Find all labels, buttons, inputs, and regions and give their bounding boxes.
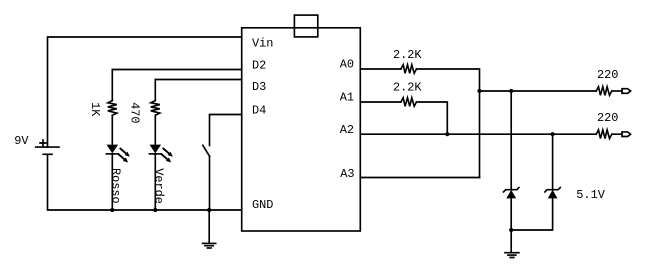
svg-text:Vin: Vin [252, 37, 273, 51]
junction dot zener ground node [509, 228, 513, 232]
LED D6 Verde triangle [150, 145, 162, 154]
wire R6 to output connector 2 [612, 133, 622, 135]
zener D8 cathode bar with hooks [545, 188, 560, 192]
wire zener D8 cathode up to A2 net [552, 134, 554, 189]
wire R4 down to A2 net [417, 102, 448, 134]
IC U1 body (Arduino) [242, 28, 361, 231]
zener D8 triangle [548, 190, 558, 199]
LED D5 light arrow 1 [120, 149, 129, 157]
svg-text:2.2K: 2.2K [393, 48, 422, 62]
junction dot switch / ground rail [207, 208, 211, 212]
svg-text:GND: GND [252, 198, 273, 212]
LED D5 cathode bar [106, 153, 118, 155]
wire switch S1 to ground rail [209, 156, 211, 210]
battery BT1 positive plate [36, 146, 59, 148]
svg-text:Verde: Verde [152, 168, 166, 204]
wire battery - to ground rail [48, 154, 242, 210]
resistor R5 220 [596, 87, 612, 96]
wire R2 to LED D6 anode [154, 115, 156, 145]
ground symbol center [203, 243, 216, 248]
svg-text:470: 470 [128, 102, 142, 123]
zener D7 triangle [506, 190, 516, 199]
wire ground node down to right ground [510, 230, 512, 253]
wire node to resistor R5 [480, 90, 597, 92]
svg-text:A3: A3 [340, 167, 354, 181]
ground symbol right [505, 253, 519, 258]
svg-text:1K: 1K [88, 102, 102, 117]
switch S1 blade (open) [203, 145, 210, 156]
wire Vin pin to battery + (net VIN) [48, 37, 242, 147]
svg-text:2.2K: 2.2K [393, 80, 422, 94]
wire R3 to node at x479 and down to A3 wire [417, 69, 480, 178]
svg-text:Rosso: Rosso [109, 168, 123, 204]
resistor R3 2.2K [401, 65, 417, 74]
junction dot A2 net / zener D8 [551, 132, 555, 136]
svg-text:D2: D2 [252, 59, 266, 73]
wire zener D8 anode to ground node [511, 198, 552, 230]
junction dot LED D6 / ground rail [153, 208, 157, 212]
LED D6 cathode bar [149, 153, 161, 155]
resistor R1 1K [108, 101, 117, 116]
wire D2 pin to resistor R1 [112, 70, 241, 101]
wire R5 to output connector 1 [612, 90, 622, 92]
svg-text:9V: 9V [14, 134, 29, 148]
wire R1 to LED D5 anode [111, 115, 113, 145]
resistor R2 470 [151, 101, 160, 116]
wire D3 pin to resistor R2 [155, 80, 241, 101]
wire ground rail to center ground [208, 210, 210, 243]
junction dot LED D5 / ground rail [110, 208, 114, 212]
junction dot node R3/R5 branch [477, 89, 481, 93]
wire zener D7 anode to ground [510, 198, 512, 230]
LED D6 light arrow 2 [162, 154, 171, 162]
svg-text:220: 220 [597, 68, 618, 82]
svg-text:D3: D3 [252, 80, 266, 94]
junction dot zener D7 top [509, 89, 513, 93]
svg-text:5.1V: 5.1V [576, 188, 605, 202]
resistor R4 2.2K [401, 98, 417, 107]
wire LED D5 cathode to ground rail [111, 154, 113, 210]
wire A2 pin across to resistor R6 [360, 133, 596, 135]
svg-text:220: 220 [597, 111, 618, 125]
wire D4 pin to switch S1 [210, 115, 242, 146]
battery + sign [40, 140, 46, 146]
LED D5 Rosso triangle [107, 145, 119, 154]
svg-text:A1: A1 [340, 91, 354, 105]
battery BT1 negative plate [43, 153, 52, 155]
zener D7 cathode bar with hooks [504, 188, 519, 192]
resistor R6 220 [596, 130, 612, 139]
junction dot R4 / A2 net [445, 132, 449, 136]
output connector pin 1 [622, 89, 631, 94]
svg-text:A2: A2 [340, 123, 354, 137]
wire zener D7 cathode up to R5 net [510, 91, 512, 190]
LED D6 light arrow 1 [163, 149, 172, 157]
wire A0 pin to resistor R3 [360, 68, 401, 70]
svg-text:A0: A0 [340, 58, 354, 72]
output connector pin 2 [622, 132, 631, 137]
wire A1 pin to resistor R4 [360, 101, 401, 103]
LED D5 light arrow 2 [119, 154, 128, 162]
USB connector square on top of U1 [294, 15, 317, 37]
wire A3 pin to node x479 [360, 177, 479, 179]
wire LED D6 cathode to ground rail [154, 154, 156, 210]
svg-text:D4: D4 [252, 104, 266, 118]
